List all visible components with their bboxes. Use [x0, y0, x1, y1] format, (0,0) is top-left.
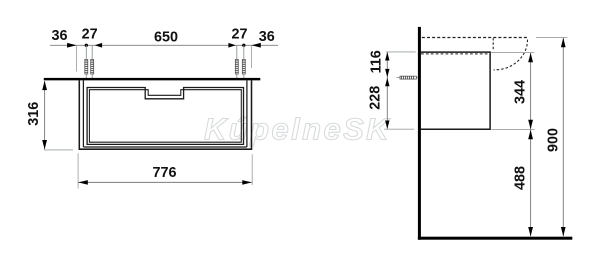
- mounting screw 2 front view: [91, 45, 93, 78]
- dim 488 top arrow: [528, 130, 533, 139]
- drawer front outer outline with handle notch: [87, 88, 243, 145]
- extension line cabinet right reference: [250, 45, 252, 68]
- svg-text:228: 228: [367, 86, 383, 110]
- dim node dot right screw4: [242, 44, 245, 47]
- svg-text:27: 27: [82, 26, 98, 42]
- countertop front view: [44, 78, 260, 80]
- dim 316 bottom arrow: [42, 140, 47, 149]
- svg-text:36: 36: [259, 29, 275, 45]
- svg-text:488: 488: [513, 166, 529, 190]
- dim 316 top arrow: [42, 81, 47, 90]
- dim 650 right arrow: [228, 43, 235, 48]
- dim node dot left screw1: [85, 44, 88, 47]
- washbasin bottom hidden edge dashed: [421, 53, 490, 55]
- dim 344-488 line: [530, 53, 532, 237]
- dim 776 right arrow: [242, 180, 251, 185]
- svg-text:KúpelneSK: KúpelneSK: [204, 112, 391, 147]
- dim 228 bottom arrow: [385, 121, 389, 129]
- extension line basin top right: [536, 37, 567, 39]
- cabinet box side view: [421, 51, 491, 129]
- drawer front inner outline with handle notch: [89, 90, 241, 143]
- dim 228 top arrow: [385, 78, 389, 86]
- svg-text:27: 27: [231, 26, 247, 42]
- dim 316 line: [44, 81, 46, 149]
- floor side view: [418, 237, 572, 240]
- dim 650 left arrow: [95, 43, 102, 48]
- cabinet outer panel U front view: [79, 80, 253, 149]
- svg-text:344: 344: [512, 80, 528, 104]
- extension line cabinet bottom left: [44, 149, 73, 151]
- svg-text:776: 776: [152, 165, 176, 181]
- dim 116-228 line: [386, 52, 388, 128]
- dim 344 bottom arrow: [528, 120, 533, 129]
- dim 36 right arrow: [251, 43, 260, 48]
- extension line cabinet top right side: [491, 52, 534, 54]
- dim 344 top arrow: [528, 53, 533, 62]
- extension line cabinet bottom right side: [492, 129, 535, 131]
- dim 900 bottom arrow: [561, 227, 566, 236]
- svg-text:316: 316: [26, 102, 42, 126]
- cabinet inner panel U front view: [83, 80, 247, 147]
- extension line cabinet top left side: [386, 51, 416, 53]
- dim 116 top arrow: [385, 52, 389, 60]
- wall side view: [418, 27, 421, 240]
- extension line cabinet bottom left side: [384, 128, 414, 130]
- dimension line top chain: [50, 44, 278, 46]
- svg-text:650: 650: [154, 29, 178, 45]
- dim 36 left arrow: [67, 43, 76, 48]
- wall mounting screw side view: [397, 77, 419, 79]
- dim 900 line: [562, 38, 564, 237]
- extension line 776 right: [251, 154, 253, 185]
- dim 776 left arrow: [78, 180, 87, 185]
- washbasin bowl front curve dashed: [494, 40, 528, 70]
- dim 900 top arrow: [561, 38, 566, 47]
- dim 116 bottom arrow: [385, 69, 389, 77]
- washbasin rear bowl edge dashed: [492, 38, 494, 50]
- mounting screw 1 front view: [85, 45, 87, 78]
- svg-text:116: 116: [369, 50, 385, 73]
- svg-text:36: 36: [51, 28, 67, 44]
- mounting screw 4 front view: [243, 45, 245, 78]
- washbasin top dashed: [422, 37, 528, 39]
- extension line cabinet left reference: [76, 45, 78, 71]
- extension line 776 left: [77, 153, 79, 188]
- svg-text:900: 900: [545, 128, 561, 152]
- mounting screw 3 front view: [236, 45, 238, 78]
- dim 776 line: [78, 181, 252, 183]
- dim 488 bottom arrow: [528, 227, 533, 236]
